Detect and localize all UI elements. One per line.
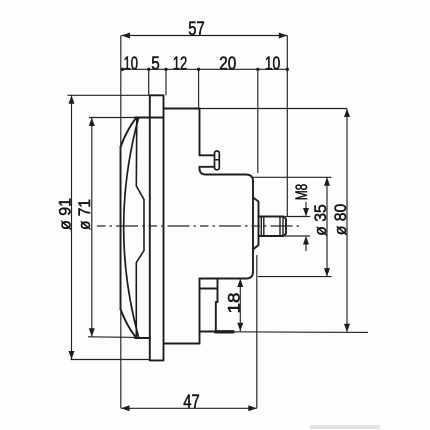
M8 top extension bbox=[285, 216, 310, 218]
M8 dimension line upper bbox=[305, 202, 307, 216]
cup bottom edge bbox=[200, 272, 254, 279]
svg-text:ø 91: ø 91 bbox=[55, 198, 74, 230]
arrow 57 right bbox=[279, 33, 288, 39]
tick dot at x=257.8 bbox=[256, 68, 259, 71]
ø80 dimension line bbox=[346, 109, 348, 333]
flange plate ø91 bbox=[150, 95, 164, 360]
bezel bottom corner chamfer bbox=[121, 309, 137, 338]
arrow M8 upper (points down) bbox=[303, 208, 309, 217]
terminal tab bottom edge bbox=[200, 331, 232, 333]
47 right extension line bbox=[256, 255, 258, 408]
tick dot at x=166 bbox=[164, 68, 167, 71]
svg-text:5: 5 bbox=[151, 53, 160, 74]
arrow ø91 top bbox=[69, 95, 75, 104]
arrow 47 right bbox=[248, 405, 256, 411]
ø80 top extension from can edge bbox=[200, 108, 348, 110]
terminal tab bottom thick mark bbox=[216, 330, 234, 333]
arrow 18 top bbox=[237, 279, 243, 288]
rear can ø80 top edge bbox=[165, 108, 200, 110]
centerline axis bbox=[97, 225, 300, 227]
rear can right face lower bbox=[199, 279, 201, 344]
18 dimension line bbox=[239, 279, 241, 332]
arrow ø35 bottom bbox=[324, 268, 330, 277]
bezel bottom edge bbox=[135, 337, 150, 339]
ø80 bottom extension from tab bbox=[232, 331, 369, 334]
svg-text:20: 20 bbox=[219, 53, 236, 74]
terminal tab divider bbox=[200, 288, 218, 290]
cup right face bbox=[252, 182, 254, 272]
boss step on cup back bbox=[253, 198, 259, 250]
tick dot at x=287.3 bbox=[286, 68, 289, 71]
screw shaft bbox=[200, 155, 215, 167]
dimension line 57 bbox=[122, 35, 288, 37]
rear can bottom edge bbox=[165, 343, 200, 345]
47 dimension line bbox=[121, 407, 257, 409]
arrow 47 left bbox=[121, 405, 130, 411]
screw head bbox=[215, 151, 220, 170]
svg-text:57: 57 bbox=[188, 19, 205, 40]
arrow ø80 bottom bbox=[344, 324, 350, 333]
dimension row line (10 5 12 20 10) bbox=[122, 68, 288, 70]
extension stub at tick 148.5 bbox=[148, 69, 150, 95]
terminal tab below cup bbox=[200, 279, 218, 332]
rear can right face upper bbox=[199, 109, 201, 156]
bezel inner ring stepped line bbox=[136, 118, 144, 337]
svg-text:ø 80: ø 80 bbox=[331, 204, 350, 236]
svg-text:M8: M8 bbox=[292, 184, 311, 201]
bezel top corner chamfer bbox=[121, 118, 137, 147]
svg-text:18: 18 bbox=[225, 293, 244, 314]
bezel glass dome arc bbox=[124, 118, 139, 337]
arrow ø35 top bbox=[324, 177, 330, 186]
right extension line for 57 and bolt end bbox=[286, 36, 288, 217]
ø71 bottom extension bbox=[88, 336, 136, 339]
bolt M8 outline bbox=[259, 217, 287, 237]
screw head slot bbox=[215, 159, 220, 161]
ø91 dimension line bbox=[71, 95, 73, 359]
svg-text:10: 10 bbox=[123, 53, 138, 74]
svg-text:10: 10 bbox=[265, 53, 281, 74]
M8 dimension line lower bbox=[305, 237, 307, 251]
cup ø35 top edge bbox=[206, 175, 253, 182]
ø71 top extension bbox=[89, 117, 135, 119]
bezel top edge bbox=[135, 117, 164, 119]
svg-text:ø 35: ø 35 bbox=[311, 204, 330, 236]
ø35 dimension line bbox=[326, 177, 328, 276]
left shared extension line (57 top / 47 bottom) bbox=[120, 36, 122, 409]
M8 bottom extension bbox=[285, 235, 310, 237]
ø91 bottom extension bbox=[71, 359, 150, 361]
bolt thread lines bbox=[261, 217, 283, 237]
ø91 top extension bbox=[68, 94, 150, 96]
arrow M8 lower (points up) bbox=[303, 236, 309, 245]
extension stub at tick 257.8 bbox=[257, 69, 259, 173]
tick dot at x=198.6 bbox=[197, 68, 200, 71]
arrow ø71 bottom bbox=[89, 328, 95, 337]
arrow 18 bottom bbox=[237, 323, 243, 332]
svg-text:47: 47 bbox=[183, 392, 200, 413]
arrow ø71 top bbox=[89, 118, 95, 127]
scan smudge bottom right bbox=[310, 425, 380, 429]
extension stub at tick 166 bbox=[165, 69, 167, 95]
arrow ø80 top bbox=[344, 109, 350, 118]
bezel front face bbox=[120, 147, 122, 309]
ø35 top extension bbox=[252, 176, 332, 178]
arrow ø91 bottom bbox=[69, 351, 75, 360]
ø35 bottom extension bbox=[258, 276, 332, 278]
tick dot at x=148.7 bbox=[147, 68, 150, 71]
extension stub at tick 198.6 bbox=[198, 69, 200, 108]
svg-text:12: 12 bbox=[173, 53, 188, 74]
ø71 dimension line bbox=[91, 118, 93, 337]
tick dot at x=122.5 bbox=[121, 68, 124, 71]
svg-text:ø 71: ø 71 bbox=[75, 199, 94, 230]
rear can right face mid to cup corner bbox=[200, 167, 207, 175]
arrow 57 left bbox=[122, 33, 131, 39]
